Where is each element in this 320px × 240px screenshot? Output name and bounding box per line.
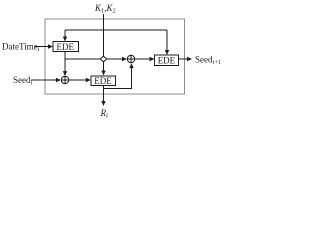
wire Seed into xor1 — [31, 79, 57, 81]
wire key into EDE2 — [101, 71, 105, 76]
svg-text:EDE: EDE — [57, 42, 75, 52]
wire key bus horizontal — [65, 29, 167, 31]
node crossover diamond — [100, 56, 107, 62]
svg-text:Seedi: Seedi — [13, 75, 33, 87]
svg-text:DateTimei: DateTimei — [2, 42, 40, 54]
wire Ri feedback branch — [104, 68, 132, 89]
block EDE1 — [53, 42, 79, 52]
wire xor2 to EDE3 — [135, 58, 151, 60]
svg-text:EDE: EDE — [94, 76, 112, 86]
wire middle row branch — [65, 58, 123, 60]
svg-text:EDE: EDE — [158, 55, 176, 65]
outer box — [45, 19, 185, 94]
xor X2 — [127, 55, 134, 62]
svg-text:K1,K2: K1,K2 — [94, 3, 116, 15]
wire K1K2 vertical — [103, 14, 105, 72]
xor X1 — [61, 76, 68, 83]
wire key into EDE1 — [64, 30, 66, 38]
block EDE3 — [155, 55, 179, 66]
wire EDE3 output to Seed_i+1 — [179, 58, 188, 60]
wire EDE2 output down to Ri — [103, 86, 105, 102]
wire EDE1 output down — [64, 52, 66, 72]
block EDE2 — [91, 76, 116, 86]
wire xor1 to EDE2 — [69, 79, 87, 81]
wire DateTime into EDE1 — [35, 46, 49, 48]
wire key into EDE3 — [166, 30, 168, 52]
